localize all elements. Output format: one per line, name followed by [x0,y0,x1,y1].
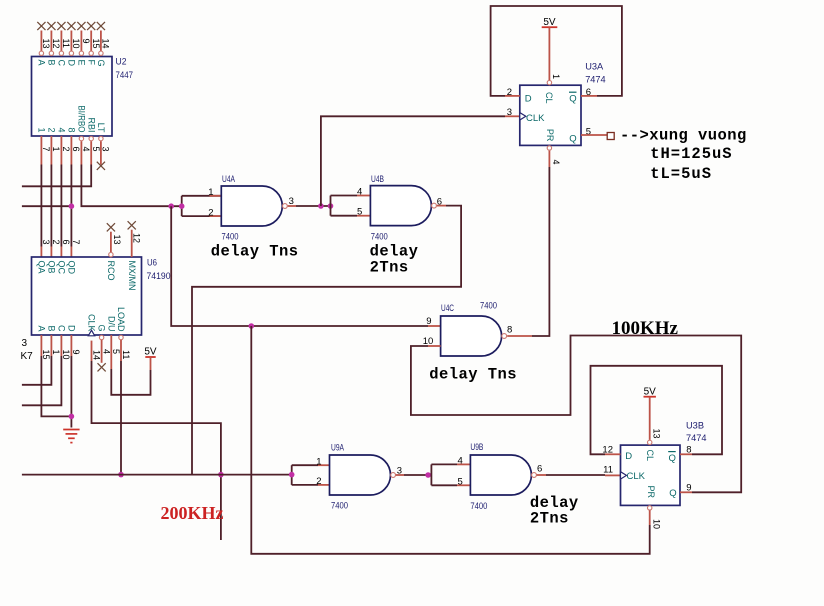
U2 top pin 10 no-connect X [67,22,75,30]
wire BI/RBO to U4A inputs [81,165,181,207]
U2 top pin 11 bubble [59,51,63,55]
nand gate U4A [221,186,287,226]
U2 top pin 12 bubble [49,51,53,55]
U6 bottom pin 1 stub [50,335,52,356]
U6 bottom pin number 15 [41,350,51,360]
junction U3A-clk riser [318,203,324,209]
svg-text:G: G [96,60,106,67]
U4B pin number 4 [357,186,362,197]
svg-text:LOAD: LOAD [116,307,126,332]
svg-text:5: 5 [458,476,463,487]
U2 bottom pin 5 stub [90,141,92,164]
label delay Tns (U4C) [429,365,517,383]
U9A output stub [396,474,404,476]
U9A pin number 2 [316,476,321,487]
U3A pin name D [525,94,532,105]
wire U6 D to ground [70,356,72,428]
U9A input bar [292,465,318,485]
U6 pin name A [37,325,47,331]
U6 D/U pin 5 stub [110,335,112,369]
svg-text:U9B: U9B [470,442,483,453]
svg-text:QB: QB [47,261,57,274]
wire U4A input bar [182,196,222,216]
wire U3B Qbar feedback to D [591,366,723,455]
svg-text:8: 8 [507,324,512,335]
svg-text:14: 14 [91,350,101,360]
U2 top pin number 10 [71,39,81,49]
svg-text:2Tns: 2Tns [530,509,569,527]
svg-text:A: A [37,325,47,331]
svg-text:QC: QC [57,261,67,275]
U6 pin name QA [37,261,47,274]
wire U9A out to U9B [404,474,431,476]
connector K7 label [21,338,34,362]
port square xung vuong [607,133,614,140]
U6 pin name QB [47,261,57,274]
svg-text:11: 11 [603,464,613,475]
power 5V (U3A) [542,17,558,80]
svg-text:14: 14 [101,39,111,49]
svg-text:MX/MN: MX/MN [127,261,137,291]
U2 bottom pin number 1 [51,147,61,152]
U3A pin name CLK [526,113,545,124]
U2 top pin number 9 [81,39,91,44]
svg-text:K7: K7 [21,351,34,362]
U3B pin name Qbar [668,452,676,464]
svg-text:U6: U6 [147,258,157,269]
U4B pin number 5 [357,207,362,218]
U6 bottom pin number 10 [61,350,71,360]
svg-text:7400: 7400 [480,301,497,312]
svg-text:7: 7 [71,240,81,245]
U9B pin number 6 [537,464,542,475]
svg-text:G: G [97,324,107,331]
svg-text:U4B: U4B [371,174,384,185]
svg-text:13: 13 [112,235,122,245]
svg-text:7400: 7400 [222,232,239,243]
U4C pin 10 stub [428,345,441,347]
U3A pin number 6 [586,87,591,98]
wire main 200KHz horizontal [22,474,292,476]
U6 pin number 11 [121,350,131,359]
svg-text:RBI: RBI [86,117,96,132]
U3B pin name Q [669,488,676,499]
svg-text:4: 4 [458,455,463,466]
U3B CLK wedge [621,472,627,479]
svg-text:CLK: CLK [627,471,646,482]
svg-text:2: 2 [61,147,71,152]
U3A PR stub [548,151,550,167]
U3B PR bubble [648,506,652,510]
U9A pin number 1 [316,456,321,467]
U3A pin number 5 [586,127,591,138]
svg-text:1: 1 [51,147,61,152]
U6 CLK pin 14 stub [91,341,93,361]
U6 top pin number 7 [71,240,81,245]
wire U6 CLK 200KHz net [92,361,221,540]
wire U2 pin 2 to U6 output [60,165,62,247]
svg-text:9: 9 [426,316,431,327]
junction QD/left-stub [69,203,75,209]
svg-text:6: 6 [537,464,542,475]
U6 bottom pin 15 stub [40,335,42,356]
flip-flop U3B 7474 body [621,445,681,505]
U2 top pin number 14 [101,39,111,49]
svg-text:7474: 7474 [585,75,606,86]
U6 bottom pin 9 stub [70,335,72,356]
U3A pin number 2 [507,87,512,98]
U4C pin number 10 [423,336,434,347]
svg-text:C: C [57,60,67,67]
label xung vuong [620,127,747,145]
svg-text:RCO: RCO [106,261,116,281]
nand gate U9B [470,455,536,495]
wire U2 pin 1 to U6 output [50,165,52,247]
U2 pin name E [77,60,87,66]
svg-text:1: 1 [316,456,321,467]
U2 pin name 8 [67,127,77,132]
svg-text:A: A [37,60,47,66]
svg-text:2: 2 [51,240,61,245]
svg-text:delay Tns: delay Tns [211,242,299,260]
U6 top pin stub x51.4 [50,247,52,258]
U2 pin name A [37,60,47,66]
U2 top pin 10 bubble [69,51,73,55]
U6 bottom pin number 1 [51,350,61,355]
IC U2 7447 body [32,57,113,137]
svg-text:2: 2 [316,476,321,487]
U3B Qbar stub [680,453,692,455]
U2 bottom pin number 3 [101,147,111,152]
svg-text:Q: Q [669,488,676,499]
U3A pin name Qbar [569,92,577,104]
svg-text:F: F [86,60,96,66]
U6 pin name D/U [106,316,116,332]
U3A CLK stub [505,115,520,117]
wire U6 B to left [22,356,52,385]
svg-text:BI/RBO: BI/RBO [77,106,87,133]
wire U2 pin 7 to U6 output [40,165,42,247]
svg-text:-->xung vuong: -->xung vuong [620,127,747,145]
svg-text:U3B: U3B [686,421,704,432]
U4B input stubs [357,196,370,216]
svg-text:PR: PR [645,486,656,499]
junction feed/bar [179,203,185,209]
U3B pin name PR [645,486,656,499]
U2 bottom pin 1 stub [50,136,52,165]
U2 top pin 15 bubble [89,51,93,55]
wire U6 C to left [22,356,62,405]
U6 pin number 5 [111,349,121,354]
svg-text:1: 1 [551,74,561,79]
U2 top pin number 13 [41,39,51,49]
U6 top pin stub x41.4 [40,247,42,258]
wire U4B input bar [331,196,358,216]
svg-text:E: E [77,60,87,66]
U3B D stub [605,453,621,455]
U2 top pin number 11 [61,39,71,48]
wire U6 A to ground node [41,356,71,416]
junction LOAD/main [118,472,124,478]
svg-text:tH=125uS: tH=125uS [650,145,732,163]
U2 bottom pin 6 stub [70,136,72,165]
U2 bottom pin number 7 [41,147,51,152]
svg-text:5: 5 [111,349,121,354]
U4A pin number 3 [289,196,294,207]
U6 top pin stub x71.4 [70,247,72,258]
wire U4A out to U3A CLK [321,116,505,206]
svg-text:5: 5 [357,207,362,218]
U3B pin number 11 [603,464,613,475]
svg-text:12: 12 [51,39,61,49]
svg-text:10: 10 [71,39,81,49]
U4A pin number 1 [208,187,213,198]
U6 pin name B [47,325,57,331]
U6 top pin number 6 [61,240,71,245]
wire U6 LOAD down to main wire [120,361,122,475]
U6 pin name CLK [87,314,97,332]
svg-text:Q: Q [569,134,576,145]
junction ground node [69,414,75,420]
U2 top pin 12 stub [50,31,52,52]
U6 pin number 12 [132,233,142,243]
U2 top pin 14 bubble [99,51,103,55]
U3A pin name PR [544,129,555,142]
U6 pin name LOAD [116,307,126,332]
svg-text:U4C: U4C [441,303,454,314]
U6 G pin 4 stub [101,340,103,363]
U9B refdes [470,442,487,512]
U4C output stub [507,335,532,337]
wire feed down to U4C pin 9 [171,206,428,326]
U2 top pin 15 no-connect X [87,22,95,30]
U2 refdes label [116,57,134,82]
U3A CLK wedge [520,113,526,120]
U2 bottom pin 4 stub [80,141,82,164]
U2 pin name BI/RBO [77,106,87,133]
svg-text:1: 1 [51,350,61,355]
svg-text:LT: LT [96,123,106,133]
svg-text:CL: CL [543,92,554,104]
svg-text:6: 6 [61,240,71,245]
svg-text:3: 3 [41,240,51,245]
U2 pin name 2 [47,127,57,132]
junction feed/drop [168,203,174,209]
IC U6 74190 body [32,257,142,335]
U2 top pin 9 bubble [79,51,83,55]
U3A pin number 4 [551,160,561,165]
U4B pin number 6 [437,197,442,208]
junction U9B bar [425,472,431,478]
svg-text:CL: CL [644,450,655,462]
svg-text:2Tns: 2Tns [370,258,409,276]
svg-text:7400: 7400 [470,501,487,512]
U3A refdes [585,62,606,86]
U4C pin number 9 [426,316,431,327]
U2 pin name C [57,60,67,67]
svg-text:7400: 7400 [371,232,388,243]
svg-text:13: 13 [652,429,662,439]
U2 pin name B [47,60,57,66]
svg-text:15: 15 [41,350,51,360]
svg-text:12: 12 [132,233,142,243]
U2 bottom pin 7 stub [40,136,42,165]
U6 LOAD pin 11 bubble [119,335,123,339]
label tH=125uS [650,145,732,163]
ground symbol [63,430,79,443]
U6 pin number 13 [112,235,122,245]
svg-text:QD: QD [67,261,77,275]
U2 top pin 13 stub [40,31,42,52]
U6 top pin number 2 [51,240,61,245]
svg-text:4: 4 [57,127,67,132]
svg-text:4: 4 [81,147,91,152]
svg-text:200KHz: 200KHz [161,503,224,523]
wire U2 pin 6 to U6 output [70,165,72,247]
nand gate U9A [330,455,396,495]
U3B refdes [686,421,707,445]
svg-text:U3A: U3A [585,62,604,73]
U2 top pin 13 no-connect X [37,22,45,30]
U3A pin number 1 [551,74,561,79]
U3A Qbar stub [581,95,597,97]
svg-text:7474: 7474 [686,433,707,444]
svg-text:2: 2 [47,127,57,132]
U6 CLK clock wedge [88,330,94,336]
svg-text:delay Tns: delay Tns [429,365,517,383]
wire U4C out to U3A PR [532,167,549,336]
svg-text:7400: 7400 [331,501,348,512]
svg-text:5: 5 [91,147,101,152]
svg-text:1: 1 [37,127,47,132]
U3B pin number 9 [686,483,691,494]
svg-text:4: 4 [551,160,561,165]
U6 G no-connect X [98,363,106,371]
label 200KHz [161,503,224,523]
U3B CL bubble [648,440,652,444]
junction main/U9A bar [289,472,295,478]
U2 top pin 12 no-connect X [47,22,55,30]
U4B refdes [371,174,388,243]
U3B pin number 12 [602,444,613,455]
svg-text:15: 15 [91,39,101,49]
svg-text:5V: 5V [144,347,157,358]
U6 pin name RCO [106,261,116,281]
svg-text:D: D [67,325,77,332]
U2 top pin 11 no-connect X [57,22,65,30]
U6 pin name D [67,325,77,332]
svg-text:4: 4 [101,349,111,354]
U6 pin name MX/MN [127,261,137,291]
U6 RCO no-connect X [107,223,115,231]
U6 LOAD pin 11 stub [120,340,122,361]
U2 top pin number 12 [51,39,61,49]
svg-text:D: D [67,60,77,67]
svg-text:tL=5uS: tL=5uS [650,165,712,183]
label tL=5uS [650,165,712,183]
U3B pin name D [625,451,632,462]
U3A CL bubble [547,80,551,84]
svg-text:QA: QA [37,261,47,274]
U2 pin 3 LT no-connect X [97,162,105,170]
U6 top pin stub x61.4 [60,247,62,258]
U3A pin name CL [543,92,554,104]
U3A PR bubble [547,146,551,150]
junction U4B bar [328,203,334,209]
U9B pin number 4 [458,455,463,466]
svg-text:B: B [47,60,57,66]
U3B pin number 13 [652,429,662,439]
U3A pin number 3 [507,107,512,118]
U6 refdes label [147,258,171,283]
nand gate U4C [441,316,507,356]
wire U3B Q 100KHz to U4C pin 10 [411,336,741,493]
U2 top pin 10 stub [70,31,72,52]
svg-text:Q: Q [669,453,676,464]
power 5V (U6) [144,347,157,371]
U6 G pin 4 bubble [99,335,103,339]
U2 bottom pin number 2 [61,147,71,152]
svg-text:2: 2 [208,207,213,218]
wire U3A Qbar feedback to D [491,6,622,96]
U2 bottom pin 4 bubble [79,136,83,140]
U6 pin name G [97,324,107,331]
U2 top pin number 15 [91,39,101,49]
U2 bottom pin 3 bubble [99,136,103,140]
U9B input stubs [457,464,470,485]
U2 top pin 14 no-connect X [97,22,105,30]
U3B Q stub [680,491,692,493]
svg-text:7447: 7447 [116,70,134,81]
U4A output stub [288,205,296,207]
U4A input stubs [210,196,222,216]
U9B output stub [537,474,546,476]
label delay 2Tns (U9B) [530,494,579,527]
U6 MX/MN no-connect X [128,221,136,229]
U2 pin name 4 [57,127,67,132]
U2 pin name RBI [86,117,96,132]
U2 top pin 15 stub [90,31,92,52]
U3B pin number 10 [652,519,662,529]
U2 pin name G [96,60,106,67]
svg-text:3: 3 [22,338,28,349]
svg-text:9: 9 [81,39,91,44]
label 100KHz [612,318,679,339]
U2 top pin 14 stub [100,31,102,52]
U6 top pin number 3 [41,240,51,245]
svg-text:13: 13 [41,39,51,49]
wire U4A out to U4B [296,205,331,207]
U3A Q stub [581,134,607,136]
U6 MX/MN pin 12 stub [131,230,133,257]
svg-text:74190: 74190 [147,271,171,282]
U9A pin number 3 [397,466,402,477]
U2 bottom pin 2 stub [60,136,62,165]
U6 pin number 14 [91,350,101,360]
svg-text:3: 3 [507,107,512,118]
svg-text:CLK: CLK [526,113,545,124]
U2 bottom pin 3 stub [100,141,102,164]
svg-text:D: D [625,451,632,462]
svg-text:PR: PR [544,129,555,142]
svg-text:B: B [47,325,57,331]
U6 pin name QD [67,261,77,275]
svg-text:U4A: U4A [222,174,235,185]
U2 pin name D [67,60,77,67]
U4C refdes [441,301,497,315]
svg-text:U9A: U9A [331,443,344,454]
U6 bottom pin 10 stub [60,335,62,356]
